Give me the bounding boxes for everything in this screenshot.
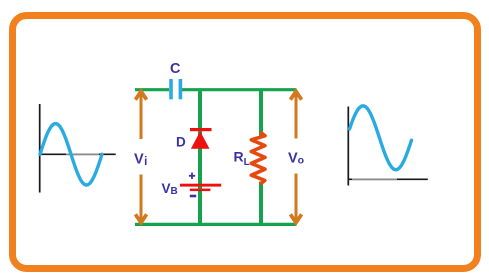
output waveform zero segment (gray) [352,178,397,180]
wire resistor branch top [259,89,263,136]
Vi measure arrow (double headed) [135,91,146,222]
Vo measure arrow (double headed) [290,91,301,222]
capacitor C plates [169,79,182,99]
wire top [135,88,297,91]
svg-text:D: D [176,134,186,149]
diode D [190,128,212,149]
svg-text:C: C [170,61,181,77]
resistor RL zigzag [251,133,265,183]
input waveform zero line (gray) [66,153,99,155]
input waveform axes [39,104,116,193]
input sine wave Vi [40,124,102,186]
battery plus sign [189,173,195,179]
wire resistor branch bottom [259,182,263,225]
output sine wave Vo (clamped) [350,106,412,170]
battery VB [180,184,221,191]
output waveform axes [348,107,428,186]
battery minus sign [190,195,196,198]
wire bottom [135,223,297,226]
wire diode branch [198,89,202,224]
